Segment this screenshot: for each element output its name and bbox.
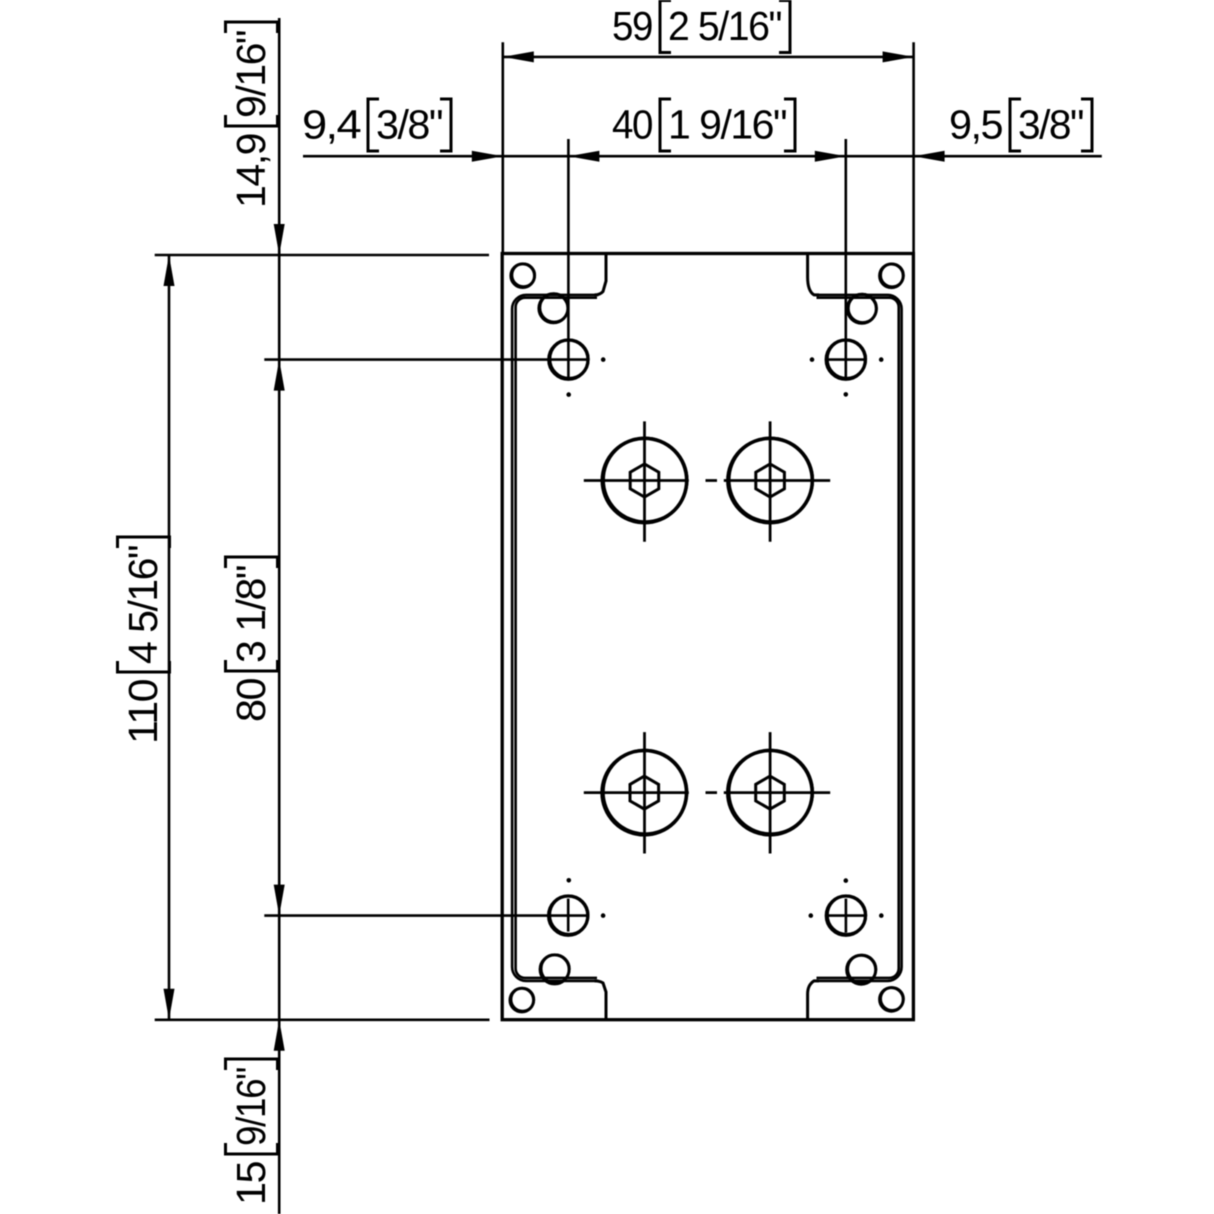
arrow 59 left: [503, 51, 534, 62]
arrow at left screw axis: [568, 151, 599, 162]
top-left mounting notch: [595, 254, 607, 295]
bottom-left corner hole: [510, 988, 534, 1012]
cover screw top-right: [826, 340, 865, 379]
knockout bottom-left: [602, 750, 686, 834]
label 15 [9/16"]: [226, 1059, 278, 1205]
bottom-left mounting notch: [595, 981, 607, 1020]
svg-text:40: 40: [612, 102, 653, 148]
dimension 14,9 [9/16"] arrow: [274, 224, 285, 255]
top-right mounting notch: [808, 254, 819, 295]
label 14,9 [9/16"]: [226, 22, 278, 208]
extension line 40-dim right / screw axis: [844, 139, 847, 378]
svg-text:3/8": 3/8": [376, 102, 442, 148]
svg-text:1 9/16": 1 9/16": [668, 102, 786, 148]
extension line bottom screw center (also screw BL horizontal centerline): [264, 914, 587, 917]
top-right corner hole: [880, 264, 904, 288]
svg-text:3 1/8": 3 1/8": [228, 566, 274, 663]
cover screw bottom-left: [549, 896, 588, 935]
top-left corner hole: [511, 264, 535, 288]
screw bottom-left vertical centerline: [567, 899, 570, 932]
svg-text:3/8": 3/8": [1018, 102, 1083, 148]
arrow 110 bottom: [164, 989, 175, 1020]
extension line top screw center (also screw TL horizontal centerline): [264, 358, 588, 361]
inner wall outline (outer line of double): [512, 295, 598, 981]
dimension 59 [2 5/16"]: [503, 56, 914, 59]
svg-text:15: 15: [228, 1161, 274, 1205]
arrow 80 bottom: [274, 885, 285, 916]
extension line right edge: [912, 42, 915, 253]
svg-text:14,9: 14,9: [228, 134, 274, 208]
screw bottom-right vertical centerline: [845, 899, 848, 933]
knockout bottom-right: [728, 750, 812, 834]
arrow 80 top: [274, 360, 285, 391]
svg-text:110: 110: [120, 679, 166, 744]
svg-text:9,5: 9,5: [949, 102, 1003, 148]
arrow 59 right: [883, 51, 914, 62]
screw bottom-right horizontal centerline: [826, 914, 865, 917]
extension line bottom edge: [155, 1018, 490, 1021]
inner wall outline (inner line of double): [516, 298, 597, 978]
knockout centerlines bottom row: [584, 791, 689, 794]
bottom-left boss circle: [540, 955, 569, 984]
svg-text:4 5/16": 4 5/16": [120, 546, 166, 664]
svg-text:9/16": 9/16": [228, 31, 274, 118]
arrow at left edge (9,4): [472, 151, 503, 162]
arrow 110 top: [164, 255, 175, 286]
dimension row 9,4 / 40 / 9,5: [303, 155, 1102, 158]
svg-text:9,4: 9,4: [302, 102, 361, 148]
extension line 40-dim left / screw axis: [567, 139, 570, 378]
enclosure outer outline: [502, 254, 913, 1020]
top-left boss circle: [539, 294, 568, 323]
knockout top-left: [602, 438, 686, 522]
knockout top-right: [728, 438, 812, 522]
dimension 80 [3 1/8"] / 14,9 / 15 common line: [278, 18, 281, 1214]
top-right boss circle: [847, 294, 876, 323]
cover screw bottom-right: [826, 896, 865, 935]
svg-text:9/16": 9/16": [228, 1068, 274, 1146]
extension line top edge: [155, 254, 489, 257]
svg-text:59: 59: [612, 3, 652, 49]
knockout centerlines top row: [584, 479, 689, 482]
arrow at right screw axis: [815, 151, 846, 162]
label 80 [3 1/8"]: [226, 557, 278, 722]
bottom-right boss circle: [847, 955, 876, 984]
bottom-right mounting notch: [808, 981, 819, 1020]
bottom-right corner hole: [880, 988, 904, 1012]
svg-text:80: 80: [228, 678, 274, 722]
extension line left edge: [501, 42, 504, 253]
pilot dots around screws: [601, 357, 606, 362]
dimension 110 [4 5/16"]: [168, 255, 171, 1020]
cover screw top-left: [549, 340, 588, 379]
label 110 [4 5/16"]: [118, 537, 170, 744]
dimension 15 [9/16"] arrow: [274, 1020, 285, 1051]
arrow at right edge (9,5): [914, 151, 945, 162]
svg-text:2 5/16": 2 5/16": [668, 3, 781, 49]
screw top-right horizontal centerline: [826, 358, 865, 361]
